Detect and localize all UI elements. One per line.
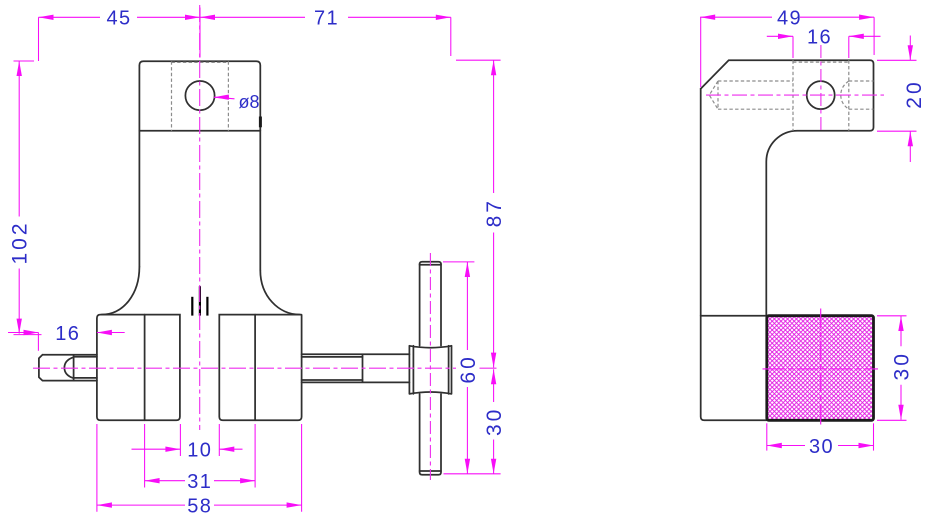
right jaw inner line [254, 315, 256, 421]
centerline handle axis [429, 253, 431, 480]
hole phi8 side [807, 81, 835, 109]
handle bar lower [420, 394, 441, 475]
svg-text:45: 45 [106, 8, 131, 30]
svg-text:102: 102 [9, 220, 32, 264]
svg-text:49: 49 [777, 8, 802, 30]
handle bar lower cap line [420, 470, 441, 472]
svg-text:58: 58 [187, 496, 212, 518]
screw left inner lines [74, 355, 97, 381]
right view pad top line [701, 315, 767, 317]
extension 45 left [38, 17, 40, 61]
hidden slot wall right (side) [848, 60, 850, 130]
dimension 10 [132, 440, 243, 462]
svg-text:10: 10 [187, 440, 212, 462]
hidden slot floor (side) [793, 61, 849, 63]
extension 71 right [450, 17, 452, 56]
hidden bore lines [718, 81, 874, 109]
dimension 58 [97, 496, 302, 518]
handle hub [409, 346, 451, 394]
left flare arc [102, 267, 140, 315]
screw right shaft [302, 354, 410, 382]
dimension 16 left view [8, 323, 125, 345]
extension 30 pad bottom [877, 419, 907, 421]
extension handle bottom [444, 473, 501, 475]
extension 87 top [456, 59, 501, 61]
centerline pad vertical [820, 309, 822, 427]
right view left edge and bottom [701, 89, 767, 421]
dimension 45 [39, 8, 201, 30]
screw dome arc [64, 357, 73, 378]
svg-text:30: 30 [809, 436, 834, 458]
left jaw block [97, 315, 180, 421]
serration ticks [192, 286, 207, 315]
extension 49 right [873, 17, 875, 55]
svg-text:16: 16 [55, 323, 80, 345]
centerline bore axis side view [706, 94, 884, 96]
right view outer boundary [701, 60, 874, 315]
centerline vertical left view [199, 5, 201, 430]
extension 16 side right [848, 36, 850, 58]
extension 20 top [877, 59, 917, 61]
hidden slot edge left (front) [171, 61, 173, 130]
dimension 71 [200, 8, 451, 30]
dimension 102 [9, 61, 32, 334]
hidden bore-slot arc [841, 81, 849, 109]
left view body column [139, 61, 260, 270]
screw thread lines [302, 357, 363, 380]
extension lines below jaws [97, 424, 302, 512]
handle bar upper [420, 262, 441, 346]
left jaw inner line [144, 315, 146, 421]
extension 16 left [37, 333, 39, 351]
extension 30 pad width right [873, 423, 875, 450]
dimension 16 side view [767, 27, 881, 49]
svg-text:60: 60 [457, 354, 480, 383]
extension 102 bottom [14, 334, 42, 336]
dimension 20 [903, 36, 926, 163]
extension 102 top [14, 60, 35, 62]
centerline hole vertical side view [820, 45, 822, 131]
svg-text:87: 87 [483, 198, 506, 227]
left view thick edge mark [259, 117, 262, 128]
hatched pad square [767, 316, 874, 421]
handle bar upper cap line [420, 264, 441, 266]
svg-text:30: 30 [483, 407, 506, 436]
right jaw block [219, 315, 301, 421]
svg-text:16: 16 [807, 27, 832, 49]
hidden slot floor (front) [172, 61, 229, 63]
hole phi8 front [185, 81, 214, 110]
extension 45-71 center [199, 8, 201, 58]
leader phi8 [214, 92, 260, 112]
dimension 30 pad width [767, 436, 874, 458]
dimension 31 [145, 471, 256, 493]
hidden slot wall left (side) [792, 60, 794, 130]
left view boss face line [139, 130, 260, 132]
svg-text:31: 31 [187, 471, 212, 493]
dimension 49 [700, 8, 874, 30]
extension 20 bottom [877, 130, 917, 132]
extension handle top [443, 261, 474, 263]
centerline pad horizontal [763, 368, 879, 370]
extension 49 left [700, 17, 702, 87]
hidden drill cone [709, 81, 718, 109]
svg-text:ø8: ø8 [239, 92, 260, 112]
extension 16 side left [792, 36, 794, 58]
screw left pad outline [39, 355, 97, 381]
dimension 30 pad height [891, 316, 914, 420]
dimension 30 lower right of front view [483, 369, 506, 474]
extension 30 pad top [877, 315, 907, 317]
centerline screw axis [33, 367, 497, 369]
extension 30 pad width left [766, 423, 768, 450]
right flare arc [260, 270, 300, 314]
svg-text:30: 30 [891, 351, 914, 380]
dimension 60 handle [457, 262, 480, 474]
svg-text:20: 20 [903, 79, 926, 108]
dimension 87 [483, 60, 506, 367]
svg-text:71: 71 [314, 8, 339, 30]
hidden slot edge right (front) [227, 61, 229, 130]
